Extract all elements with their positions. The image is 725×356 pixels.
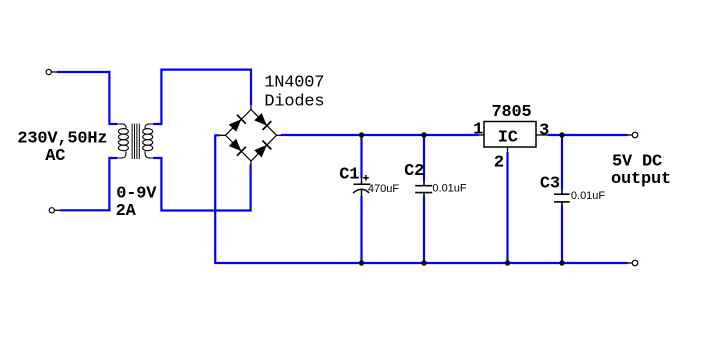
diode D3 bottom-left [228, 138, 246, 156]
terminal input top-left [46, 69, 51, 74]
wire C2 bottom [423, 197, 425, 264]
C1 plus sign [363, 175, 369, 181]
svg-text:5V DC: 5V DC [612, 153, 662, 172]
capacitor C2 [415, 181, 432, 197]
wire terminal lead bottom-right [628, 262, 633, 264]
bridge lead left [219, 134, 226, 136]
bridge rectifier diamond [226, 110, 277, 162]
svg-text:2A: 2A [116, 202, 137, 221]
bridge lead right [277, 134, 282, 136]
svg-text:C3: C3 [540, 174, 560, 193]
wire terminal lead bottom-left [55, 209, 61, 211]
transformer T1 core [132, 124, 139, 160]
node junction dot rail C2 [421, 132, 426, 137]
terminal output bottom-right [632, 260, 638, 266]
diode D4 bottom-right [254, 140, 272, 158]
svg-text:1N4007: 1N4007 [264, 74, 324, 93]
IC pin1 lead [479, 134, 485, 136]
wire main rail bridge to IC [281, 134, 479, 136]
svg-text:C1: C1 [339, 165, 359, 184]
wire bridge minus to bottom rail [215, 135, 628, 263]
node junction dot bottom C1 [359, 260, 364, 265]
wire primary bottom [60, 158, 117, 210]
svg-text:C2: C2 [404, 162, 424, 181]
wire secondary top to bridge [153, 70, 251, 124]
node junction dot rail C3 [559, 132, 564, 137]
node junction dot rail C1 [359, 132, 364, 137]
svg-text:7805: 7805 [492, 103, 532, 122]
wire primary top [57, 72, 117, 124]
capacitor C1 electrolytic [353, 178, 371, 196]
bridge lead top [250, 105, 252, 111]
svg-text:Diodes: Diodes [264, 93, 324, 112]
svg-text:230V,50Hz: 230V,50Hz [17, 129, 107, 148]
terminal output top-right [632, 132, 638, 138]
IC pin2 lead [507, 147, 509, 153]
capacitor C3 [554, 190, 570, 206]
diode D2 top-right [254, 112, 272, 130]
svg-text:0-9V: 0-9V [116, 184, 157, 203]
svg-text:AC: AC [45, 147, 65, 166]
svg-text:IC: IC [498, 129, 518, 148]
op-amp IC 7805 regulator box [484, 122, 536, 148]
wire terminal lead top-left [52, 71, 58, 73]
wire C3 bottom [561, 206, 563, 263]
wire secondary bottom to bridge bottom [153, 158, 250, 211]
bridge lead bottom [250, 161, 252, 165]
transformer T1 secondary coil [143, 124, 154, 158]
svg-text:0.01uF: 0.01uF [432, 183, 467, 195]
wire terminal lead top-right [628, 134, 633, 136]
svg-text:0.01uF: 0.01uF [571, 190, 606, 202]
wire C3 top [561, 135, 563, 190]
wire rail IC out to terminal [548, 134, 628, 136]
svg-text:output: output [611, 170, 671, 189]
wire C1 top [360, 135, 362, 178]
wire C2 top [423, 135, 425, 181]
node junction dot bottom C2 [421, 260, 426, 265]
svg-text:1: 1 [473, 121, 483, 140]
node junction dot bottom pin2 [505, 260, 510, 265]
diode D1 top-left [228, 115, 246, 133]
svg-text:2: 2 [494, 154, 504, 173]
node junction dot bottom C3 [559, 260, 564, 265]
terminal input bottom-left [49, 208, 54, 213]
svg-text:470uF: 470uF [368, 183, 399, 195]
IC pin3 lead [536, 134, 549, 136]
wire C1 bottom [360, 196, 362, 263]
svg-text:3: 3 [539, 122, 549, 141]
wire IC pin2 down [506, 152, 508, 263]
transformer T1 primary coil [117, 124, 128, 158]
